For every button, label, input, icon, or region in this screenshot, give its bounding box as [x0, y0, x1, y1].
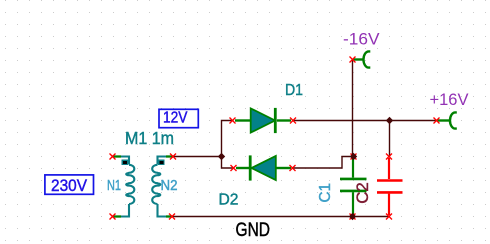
node junction dot at transformer tap	[218, 153, 225, 160]
transformer N2 pin stub bottom	[166, 215, 172, 217]
transformer M1 winding N1	[120, 157, 135, 217]
pin x +16V	[434, 118, 440, 124]
pin x N2 top	[170, 154, 176, 160]
capacitor C2 (selected, red)	[377, 158, 403, 215]
wire C2 drop from +16V rail	[389, 121, 391, 157]
transformer M1 winding N2	[152, 157, 166, 217]
transformer N2 polarity mark	[158, 160, 165, 166]
node junction dot on +16V rail	[386, 117, 393, 124]
wire junction riser to D1 anode	[222, 121, 234, 169]
svg-text:M1 1m: M1 1m	[125, 128, 174, 148]
voltage box 12V	[159, 109, 198, 127]
svg-text:D2: D2	[219, 192, 239, 209]
voltage box 230V	[45, 175, 94, 195]
pin x N2 bottom	[169, 214, 175, 220]
svg-text:-16V: -16V	[343, 30, 380, 49]
svg-text:D1: D1	[285, 82, 303, 99]
pin x C1 top	[351, 154, 357, 160]
jumper +16V symbol	[438, 112, 457, 128]
wire D2 cathode jog to C1 node	[293, 157, 354, 169]
svg-text:C2: C2	[353, 182, 372, 204]
transformer N1 polarity mark	[122, 160, 129, 166]
svg-text:+16V: +16V	[430, 90, 470, 109]
svg-text:N1: N1	[107, 178, 121, 194]
pin x N1 bottom	[110, 214, 116, 220]
diode D2	[236, 155, 291, 180]
wire D1 cathode to +16V rail	[293, 120, 437, 122]
capacitor C1	[340, 158, 367, 215]
svg-text:GND: GND	[236, 219, 271, 241]
pin x N1 top	[110, 154, 116, 160]
svg-text:C1: C1	[317, 183, 334, 203]
pin x D1 right	[290, 118, 296, 124]
svg-text:230V: 230V	[51, 176, 88, 195]
pin x -16V	[350, 57, 356, 63]
node junction dot C1 top	[350, 153, 357, 160]
pin x D1 left	[230, 118, 236, 124]
transformer N1 pin stub top	[113, 155, 122, 157]
transformer N1 pin stub bottom	[113, 215, 122, 217]
svg-text:N2: N2	[161, 178, 178, 194]
transformer N2 pin stub top	[166, 155, 173, 157]
node junction dot C1 bottom on GND rail	[349, 213, 356, 220]
wire GND rail	[172, 216, 389, 218]
pin x C2 bottom	[386, 214, 392, 220]
svg-text:12V: 12V	[163, 110, 188, 127]
diode D1	[235, 108, 291, 133]
pin x C1 bottom	[350, 214, 356, 220]
wire -16V vertical drop	[352, 60, 354, 157]
pin x C2 top	[386, 154, 392, 160]
pin x D2 right	[290, 165, 296, 171]
jumper -16V symbol	[354, 51, 371, 67]
pin x D2 left	[231, 165, 237, 171]
wire from N2 top pin to junction	[173, 156, 222, 158]
